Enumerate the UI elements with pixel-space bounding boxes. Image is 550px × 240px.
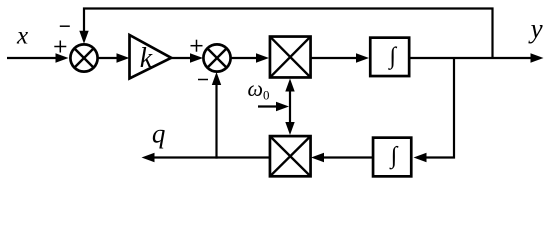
- svg-text:q: q: [152, 118, 166, 148]
- svg-text:y: y: [528, 14, 543, 44]
- svg-text:k: k: [140, 43, 153, 74]
- svg-text:∫: ∫: [389, 143, 399, 170]
- svg-text:∫: ∫: [388, 43, 398, 70]
- svg-text:x: x: [16, 23, 28, 50]
